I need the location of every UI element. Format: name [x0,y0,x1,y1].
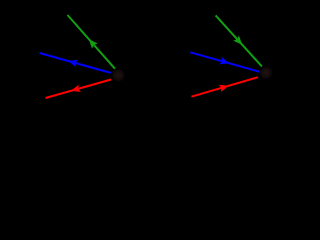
wire: left red quark line [46,80,112,99]
arrowhead: right green (points down-right, incoming) [233,36,242,45]
wire: left green quark line [68,15,115,69]
wire: right blue quark line [190,52,259,72]
wire: left blue quark line [40,53,111,73]
arrowhead: left red (points down-left, outgoing) [71,85,81,92]
node: left vertex blob [111,68,125,82]
arrowhead: left green (points up-left, outgoing) [89,39,98,48]
wire: right green quark line [216,15,262,66]
arrowhead: left blue (points left, outgoing) [68,60,78,67]
arrowhead: right red (points up-right, incoming) [219,85,229,92]
node: right vertex blob [259,66,273,80]
arrowhead: right blue (points right, incoming) [219,57,229,64]
wire: right red quark line [191,77,258,97]
